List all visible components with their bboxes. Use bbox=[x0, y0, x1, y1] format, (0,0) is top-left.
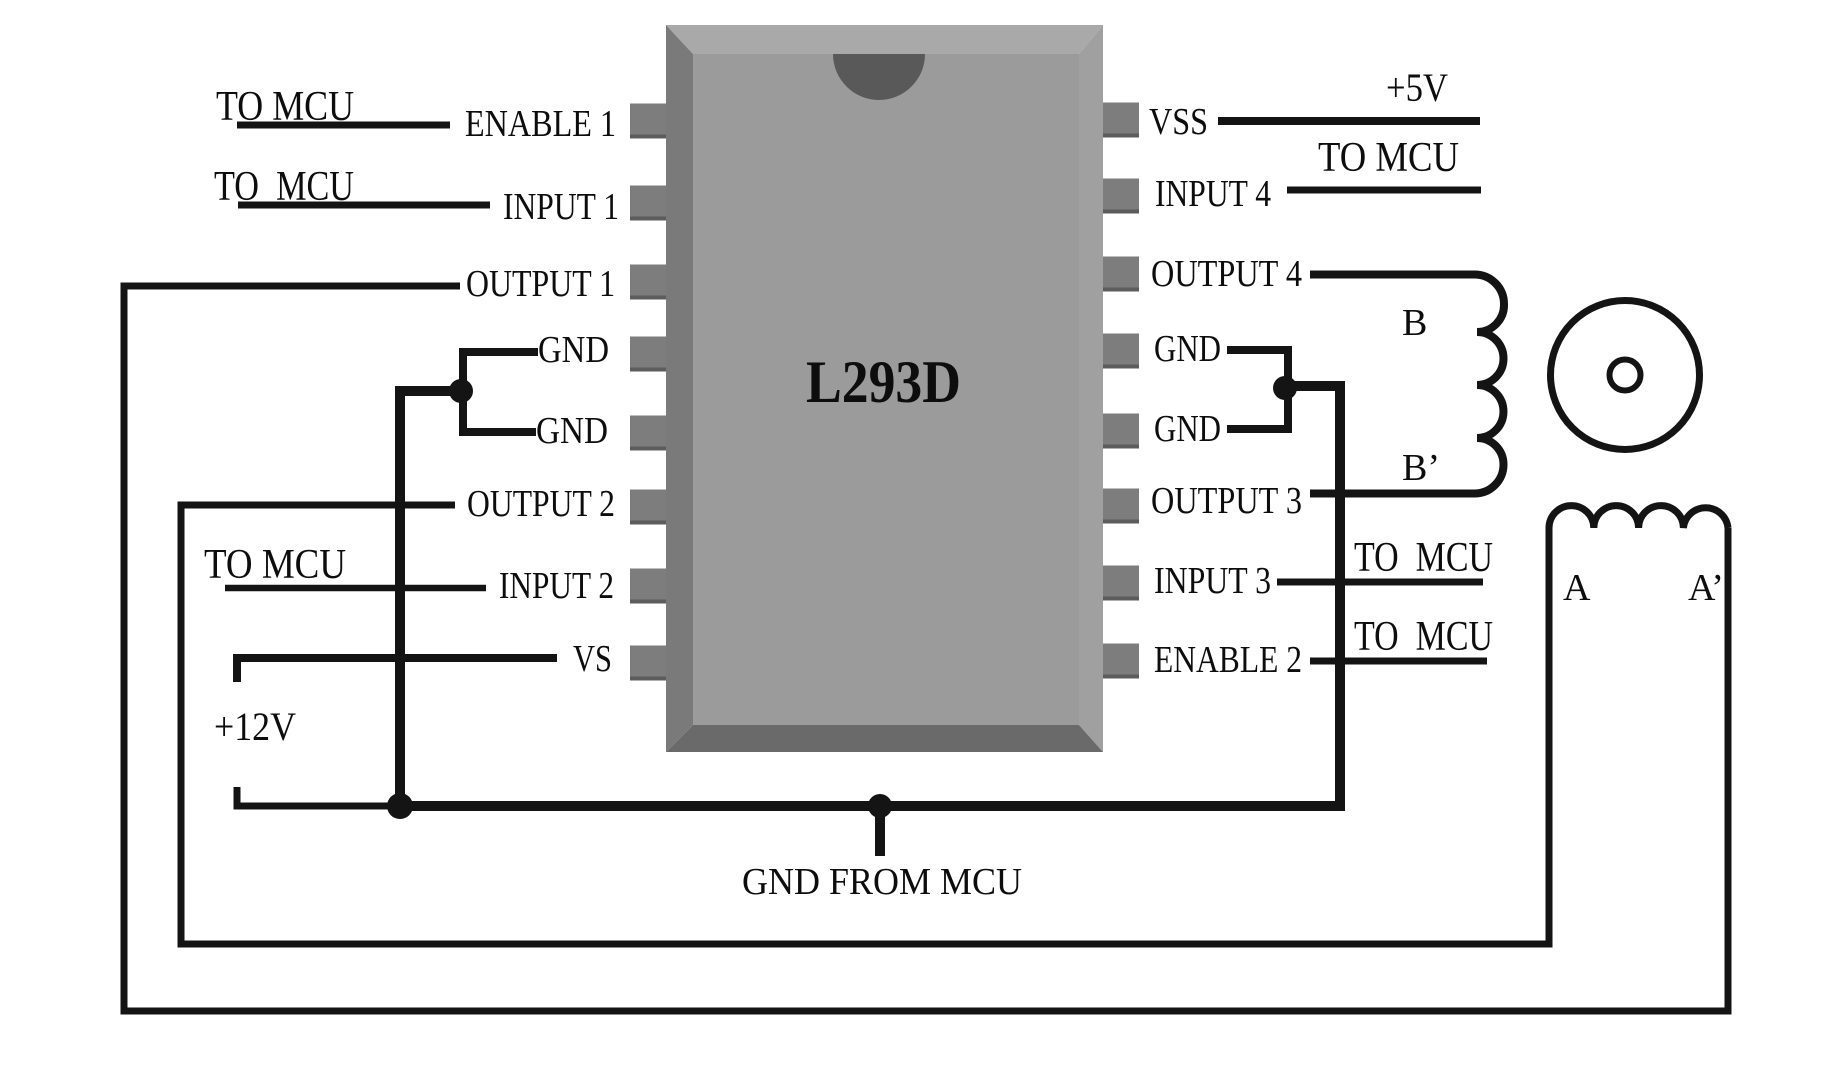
pin 10 INPUT3 (right) bbox=[1103, 566, 1139, 601]
svg-text:OUTPUT 2: OUTPUT 2 bbox=[467, 483, 615, 525]
svg-text:TO MCU: TO MCU bbox=[216, 84, 354, 130]
wire GND FROM MCU stub bbox=[875, 806, 885, 856]
pin 5 GND (left) bbox=[630, 416, 666, 451]
svg-text:TO MCU: TO MCU bbox=[1354, 535, 1493, 581]
node right GND junction bbox=[1273, 376, 1297, 400]
node GND FROM MCU junction bbox=[868, 794, 892, 818]
svg-text:OUTPUT 4: OUTPUT 4 bbox=[1151, 253, 1302, 295]
pin 6 OUTPUT2 (left) bbox=[630, 490, 666, 525]
svg-text:TO MCU: TO MCU bbox=[1354, 614, 1493, 660]
IC right bevel face bbox=[1079, 25, 1103, 752]
wire ENABLE1 to MCU bbox=[237, 122, 450, 129]
wire GND pin4 bbox=[463, 352, 538, 391]
IC main face bbox=[693, 54, 1079, 725]
IC U1 L293D package body bbox=[666, 25, 1103, 752]
wire INPUT3 to MCU bbox=[1277, 579, 1483, 586]
svg-text:VS: VS bbox=[573, 638, 612, 680]
pin 2 INPUT1 (left) bbox=[630, 186, 666, 221]
svg-text:INPUT 4: INPUT 4 bbox=[1155, 173, 1271, 215]
wire GND pin5 bbox=[463, 391, 536, 432]
wire OUTPUT2 to coil A bbox=[181, 505, 1549, 944]
svg-text:A’: A’ bbox=[1688, 567, 1724, 609]
svg-text:L293D: L293D bbox=[806, 349, 961, 415]
pin 3 OUTPUT1 (left) bbox=[630, 265, 666, 300]
pin 14 OUTPUT4 (right) bbox=[1103, 257, 1139, 292]
svg-text:TO MCU: TO MCU bbox=[214, 164, 354, 210]
svg-text:A: A bbox=[1563, 567, 1591, 609]
inductor coil B with OUTPUT4 and OUTPUT3 wires bbox=[1310, 275, 1504, 494]
pin 8 VS (left) bbox=[630, 646, 666, 681]
wire INPUT2 to MCU bbox=[225, 585, 486, 592]
node left GND junction bbox=[449, 379, 473, 403]
wire +12V lower stub bbox=[237, 787, 400, 806]
svg-text:GND: GND bbox=[538, 329, 609, 371]
svg-text:B’: B’ bbox=[1402, 447, 1440, 489]
svg-text:GND FROM MCU: GND FROM MCU bbox=[742, 861, 1022, 903]
svg-text:OUTPUT 3: OUTPUT 3 bbox=[1151, 480, 1302, 522]
IC bottom bevel face bbox=[666, 725, 1103, 752]
pin 16 VSS (right) bbox=[1103, 103, 1139, 138]
pin 12 GND (right) bbox=[1103, 414, 1139, 449]
IC notch bbox=[833, 54, 925, 100]
motor M shaft inner circle bbox=[1610, 360, 1641, 391]
svg-text:B: B bbox=[1402, 302, 1427, 344]
IC top bevel face bbox=[666, 25, 1103, 54]
pin 9 ENABLE2 (right) bbox=[1103, 644, 1139, 679]
svg-text:OUTPUT 1: OUTPUT 1 bbox=[466, 263, 615, 305]
pin 1 ENABLE1 (left) bbox=[630, 104, 666, 139]
svg-text:GND: GND bbox=[1154, 408, 1221, 450]
wire GND pin13 bbox=[1227, 350, 1288, 388]
wire INPUT4 to MCU bbox=[1287, 187, 1481, 194]
pin 15 INPUT4 (right) bbox=[1103, 179, 1139, 214]
svg-text:+12V: +12V bbox=[214, 704, 296, 749]
svg-text:TO MCU: TO MCU bbox=[204, 542, 346, 588]
svg-text:INPUT 1: INPUT 1 bbox=[503, 186, 619, 228]
wire INPUT1 to MCU bbox=[238, 202, 490, 209]
pin 7 INPUT2 (left) bbox=[630, 569, 666, 604]
wire GND bus bbox=[400, 386, 1340, 806]
node +12V junction bbox=[387, 793, 413, 819]
pin 13 GND (right) bbox=[1103, 334, 1139, 369]
wire VSS to +5V bbox=[1218, 117, 1480, 125]
pin 4 GND (left) bbox=[630, 337, 666, 372]
svg-text:VSS: VSS bbox=[1149, 101, 1208, 143]
svg-text:TO MCU: TO MCU bbox=[1318, 135, 1459, 181]
IC left bevel face bbox=[666, 25, 693, 752]
svg-text:+5V: +5V bbox=[1386, 65, 1448, 110]
svg-text:INPUT 3: INPUT 3 bbox=[1154, 560, 1271, 602]
inductor coil A bbox=[1549, 506, 1728, 528]
svg-text:GND: GND bbox=[1154, 328, 1221, 370]
wire GND pin12 bbox=[1227, 388, 1288, 429]
wire OUTPUT1 to coil A' bbox=[124, 286, 1728, 1011]
pin 11 OUTPUT3 (right) bbox=[1103, 489, 1139, 524]
svg-text:ENABLE 1: ENABLE 1 bbox=[465, 103, 616, 145]
svg-text:ENABLE 2: ENABLE 2 bbox=[1154, 639, 1302, 681]
wire VS to +12V bbox=[237, 658, 557, 682]
motor M rotor outer circle bbox=[1551, 301, 1700, 450]
wire ENABLE2 to MCU bbox=[1310, 658, 1487, 665]
svg-text:INPUT 2: INPUT 2 bbox=[499, 565, 614, 607]
svg-text:GND: GND bbox=[536, 410, 608, 452]
